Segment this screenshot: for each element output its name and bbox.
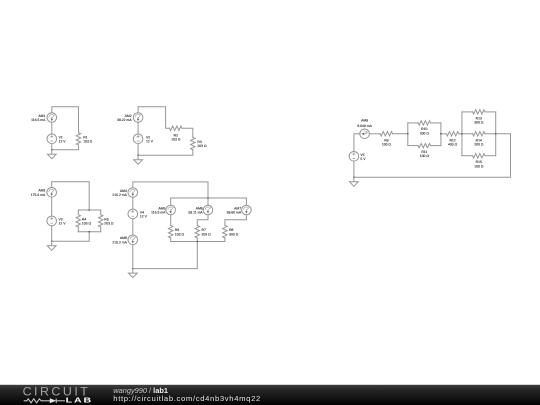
- wire AM3-V3: [51, 197, 53, 216]
- wire R13 left lead: [462, 111, 473, 113]
- wire R8-rail: [224, 238, 226, 242]
- wire R4 top lead: [77, 210, 79, 215]
- wire rail top c3: [78, 209, 100, 211]
- ammeter AM3: [47, 188, 57, 198]
- ammeter AM1: [47, 113, 57, 123]
- svg-text:http://circuitlab.com/cd4nb3vh: http://circuitlab.com/cd4nb3vh4mq22: [113, 394, 261, 403]
- wire rail right b1: [440, 123, 442, 146]
- resistor R12: [446, 132, 458, 136]
- wire R5 top lead: [100, 210, 102, 215]
- voltage source V2: [133, 134, 143, 144]
- wire AM8-gnd: [132, 245, 134, 269]
- wire R11 right lead: [431, 145, 441, 147]
- wire rail left b1: [407, 123, 409, 146]
- wire return c4: [133, 242, 198, 269]
- resistor R13: [473, 110, 485, 114]
- wire V5-AM9: [354, 134, 360, 152]
- wire stub AM7: [245, 198, 247, 205]
- ground: [128, 269, 137, 278]
- wire V4-AM8: [132, 219, 134, 235]
- wire R13 right lead: [485, 111, 496, 113]
- ammeter AM6: [203, 205, 213, 215]
- wire R6-rail: [170, 238, 172, 242]
- node block1 right: [440, 133, 442, 135]
- wire top c3: [52, 182, 89, 210]
- wire R7-rail: [196, 238, 198, 242]
- wire V5-gnd: [353, 161, 355, 177]
- ground: [350, 177, 359, 186]
- wire R5 bottom lead: [100, 227, 102, 232]
- wire V3-gnd: [51, 226, 53, 242]
- voltage source V5: [349, 152, 359, 162]
- resistor R4: [76, 215, 80, 227]
- wire AM6-R7: [197, 215, 208, 226]
- node gnd c4: [132, 268, 134, 270]
- wire R9-block1: [393, 133, 408, 135]
- resistor R1: [76, 133, 80, 145]
- resistor R2: [170, 126, 182, 130]
- ammeter AM4: [128, 188, 138, 198]
- wire bottom c3: [52, 232, 89, 242]
- wire R2-R3: [182, 128, 193, 137]
- ammeter AM9: [360, 129, 370, 139]
- wire V2-gnd: [137, 144, 139, 156]
- wire rail bottom c4: [171, 241, 225, 243]
- ammeter AM8: [128, 235, 138, 245]
- wire AM5-R6: [170, 215, 172, 226]
- wire R12-block2: [459, 133, 462, 135]
- wire R14 right lead: [485, 133, 496, 135]
- resistor R5: [99, 215, 103, 227]
- wire AM7-R8: [225, 215, 247, 226]
- ammeter AM5: [166, 205, 176, 215]
- wire R15 left lead: [462, 155, 473, 157]
- wire R10 left lead: [408, 122, 418, 124]
- wire return c5: [354, 134, 511, 178]
- wire AM9-R9: [369, 133, 380, 135]
- resistor R14: [473, 132, 485, 136]
- node feed c4: [207, 197, 209, 199]
- node gnd c3: [51, 240, 53, 242]
- resistor R7: [195, 226, 199, 238]
- logo resistor zigzag and diode symbol: [24, 399, 65, 404]
- node gnd c2: [137, 154, 139, 156]
- wire AM4-V4: [132, 197, 134, 209]
- wire R15 right lead: [485, 155, 496, 157]
- node gnd c1: [51, 149, 53, 151]
- wire rail top c4: [171, 197, 247, 199]
- ground: [134, 155, 143, 164]
- resistor R9: [380, 132, 392, 136]
- wire rail bottom c3: [78, 231, 100, 233]
- wire AM1-V1: [51, 122, 53, 134]
- resistor R3: [191, 137, 195, 149]
- wire V1-gnd: [51, 144, 53, 150]
- ammeter AM7: [242, 205, 252, 215]
- wire top loop c1: [52, 107, 79, 133]
- wire bottom c1: [52, 145, 79, 150]
- wire R11 left lead: [408, 145, 418, 147]
- wire stub AM6: [207, 198, 209, 205]
- resistor R10: [418, 121, 430, 125]
- node block2 left: [461, 133, 463, 135]
- wire R4 bottom lead: [77, 227, 79, 232]
- voltage source V3: [47, 216, 57, 226]
- wire R10 right lead: [431, 122, 441, 124]
- wire stub AM5: [170, 198, 172, 205]
- node rail top c3: [88, 209, 90, 211]
- ground: [47, 150, 56, 159]
- resistor R11: [418, 143, 430, 147]
- node gnd c5: [353, 176, 355, 178]
- svg-text:LAB: LAB: [66, 396, 93, 404]
- node rail bottom c3: [88, 231, 90, 233]
- resistor R8: [223, 226, 227, 238]
- wire bottom c2: [138, 150, 193, 156]
- wire AM2-V2: [137, 122, 139, 134]
- node block1 left: [407, 133, 409, 135]
- node rail bottom c4: [196, 241, 198, 243]
- resistor R6: [169, 226, 173, 238]
- resistor R15: [473, 154, 485, 158]
- voltage source V1: [47, 134, 57, 144]
- node block2 right: [495, 133, 497, 135]
- wire top c2: [138, 107, 170, 129]
- wire rail right b2: [495, 112, 497, 156]
- voltage source V4: [128, 209, 138, 219]
- ammeter AM2: [133, 113, 143, 123]
- wire rail left b2: [461, 112, 463, 156]
- wire block1-R12: [441, 133, 447, 135]
- wire R14 left lead: [462, 133, 473, 135]
- wire top c4: [133, 182, 208, 198]
- ground: [47, 241, 56, 250]
